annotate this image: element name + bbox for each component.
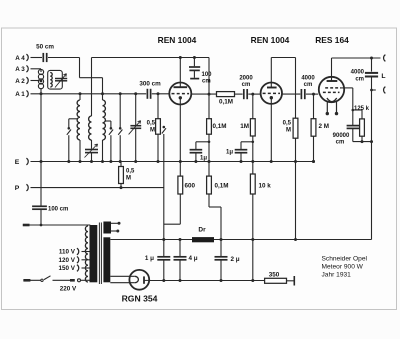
svg-text:M: M — [150, 128, 155, 134]
svg-text:P: P — [15, 185, 20, 192]
svg-text:RGN 354: RGN 354 — [122, 294, 158, 304]
svg-text:1M: 1M — [240, 123, 249, 130]
svg-text:100 cm: 100 cm — [48, 207, 68, 213]
svg-text:cm: cm — [242, 82, 251, 88]
svg-text:L: L — [381, 73, 385, 80]
svg-text:4 μ: 4 μ — [189, 255, 198, 262]
svg-text:2 M: 2 M — [319, 123, 330, 130]
svg-text:50 cm: 50 cm — [36, 44, 54, 51]
svg-text:Schneider Opel: Schneider Opel — [322, 255, 368, 262]
svg-text:cm: cm — [336, 140, 345, 146]
svg-text:600: 600 — [185, 182, 196, 189]
svg-text:RES 164: RES 164 — [315, 35, 349, 45]
svg-text:4000: 4000 — [351, 70, 365, 76]
svg-text:cm: cm — [304, 82, 313, 88]
svg-text:100: 100 — [202, 72, 213, 78]
svg-text:A 3: A 3 — [15, 66, 25, 73]
svg-text:cm: cm — [202, 79, 211, 85]
svg-text:4000: 4000 — [301, 76, 315, 82]
svg-text:1μ: 1μ — [200, 156, 207, 162]
svg-text:2000: 2000 — [239, 76, 253, 82]
svg-text:A 2: A 2 — [15, 78, 25, 85]
svg-text:0,1M: 0,1M — [219, 98, 233, 105]
svg-text:120 V: 120 V — [59, 257, 76, 264]
svg-text:0,5: 0,5 — [283, 121, 292, 127]
svg-text:220 V: 220 V — [60, 286, 77, 293]
svg-text:Dr: Dr — [198, 227, 206, 234]
svg-text:REN 1004: REN 1004 — [251, 35, 290, 45]
svg-text:0,5: 0,5 — [126, 169, 135, 175]
svg-text:110 V: 110 V — [59, 249, 76, 256]
svg-text:REN 1004: REN 1004 — [158, 35, 197, 45]
svg-text:125 k: 125 k — [354, 106, 370, 112]
svg-text:0,1M: 0,1M — [213, 123, 227, 130]
svg-text:10 k: 10 k — [259, 182, 272, 189]
svg-text:0,1M: 0,1M — [215, 182, 229, 189]
svg-text:Meteor 900 W: Meteor 900 W — [322, 264, 364, 271]
svg-text:Jahr 1931: Jahr 1931 — [322, 271, 352, 278]
svg-text:A 1: A 1 — [15, 91, 25, 98]
svg-text:E: E — [15, 159, 20, 166]
svg-text:2 μ: 2 μ — [231, 256, 240, 263]
svg-text:0,5: 0,5 — [147, 121, 156, 127]
svg-text:M: M — [126, 176, 131, 182]
svg-text:90000: 90000 — [333, 133, 350, 139]
svg-text:350: 350 — [269, 271, 280, 278]
svg-text:cm: cm — [355, 77, 364, 83]
svg-text:300 cm: 300 cm — [139, 81, 161, 88]
svg-text:A 4: A 4 — [15, 55, 25, 62]
svg-text:M: M — [286, 128, 291, 134]
svg-text:1 μ: 1 μ — [145, 255, 154, 262]
svg-text:150 V: 150 V — [59, 265, 76, 272]
svg-text:1μ: 1μ — [226, 150, 233, 156]
